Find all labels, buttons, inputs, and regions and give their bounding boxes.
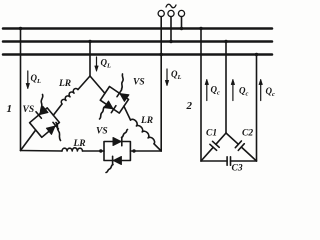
svg-text:C2: C2 [242,129,253,139]
svg-text:C3: C3 [232,164,243,174]
svg-text:2: 2 [186,100,193,112]
svg-text:VS: VS [133,78,145,88]
svg-text:VS: VS [96,127,108,137]
svg-text:LR: LR [73,139,86,149]
svg-text:VS: VS [23,105,35,115]
svg-text:C1: C1 [206,129,217,139]
svg-text:LR: LR [140,116,153,126]
svg-text:1: 1 [7,103,13,115]
svg-text:LR: LR [58,79,71,89]
